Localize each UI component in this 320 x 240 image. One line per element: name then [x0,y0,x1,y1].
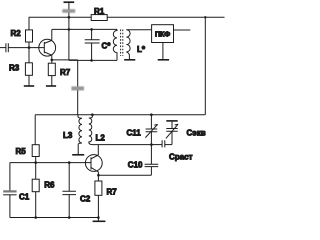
wire tank left vertical [68,29,70,60]
svg-text:Сэкв: Сэкв [187,129,206,138]
node divider [34,161,37,164]
wire C1 drop [9,163,11,192]
svg-text:L*: L* [137,45,146,54]
capacitor Crast [151,144,162,146]
wire power vertical [68,2,70,29]
wire base rail Q2 [10,162,91,164]
svg-text:C2: C2 [80,195,91,204]
wire bottom rail [10,217,99,219]
wire right vertical [204,17,206,114]
node C11 top [150,113,153,116]
transistor Q2 [85,155,102,172]
wire R5 to divider [35,157,37,163]
wire emitter line to C10 [98,174,151,176]
svg-text:C1: C1 [19,193,30,202]
wire Crast up to Cekv [171,131,173,144]
gray blur bar on coupling line [71,86,84,90]
node right-rail junction [204,16,206,18]
capacitor C11 variable [150,115,152,129]
capacitor C1 [3,190,16,192]
node L2 top [91,113,94,116]
ground R7 bottom [93,220,106,222]
wire input [0,47,6,49]
wire base [8,47,44,49]
ground PKF [158,59,169,61]
wire tank bottom [69,59,117,61]
power terminal T-bar [64,1,75,3]
svg-text:L2: L2 [96,134,106,143]
capacitor C10 [150,145,152,165]
wire emitter to coupling [52,59,78,61]
svg-text:L3: L3 [63,131,73,140]
ground R7 top [46,85,56,87]
resistor R6 [35,163,37,180]
wire R5 drop [34,115,36,145]
node power drop on collector rail [68,28,71,31]
wire mid rail [35,114,205,116]
node C11 bottom junction [150,143,153,146]
node base Q1 [28,46,31,49]
wire R2 to top rail [28,17,30,30]
wire base to R3 [28,48,30,63]
resistor R5 [32,145,39,157]
inductor transformer primary [113,29,117,60]
resistor R3 [25,63,32,76]
inductor transformer secondary L* [126,30,130,60]
svg-text:C11: C11 [127,129,142,138]
wire collector rail [52,28,117,30]
node emitter Q1 [51,59,54,62]
svg-text:C10: C10 [128,161,143,170]
capacitor Cekv variable [166,129,177,132]
wire PKF to ground [162,43,164,60]
capacitor C2 [68,163,70,192]
wire R6 to rail [35,192,37,218]
gray blur bar on power line [62,9,75,13]
resistor R7 top [51,60,53,63]
node R6 rail [34,216,37,219]
svg-text:R5: R5 [16,147,27,156]
resistor R7 bottom [97,175,99,181]
node Q2 emitter [97,174,100,177]
ground secondary [124,59,135,61]
resistor R1 [91,15,107,21]
wire PKF output stub [174,29,191,31]
node rail end [97,216,100,219]
resistor R2 [26,30,33,42]
wire R3 to ground [28,75,30,86]
svg-text:ПКФ: ПКФ [155,32,170,39]
svg-text:R6: R6 [44,181,55,190]
ground R3 [24,85,34,87]
block PKF [152,25,174,43]
terminal Cekv T-bar [166,120,177,122]
node power-rail junction [68,16,71,19]
capacitor C* [91,29,93,39]
svg-text:R1: R1 [94,7,105,16]
svg-text:Сраст: Сраст [169,153,193,162]
ground L3 [72,154,84,156]
svg-text:R2: R2 [11,29,22,38]
inductor L2 [89,115,152,145]
wire R7 to ground [51,76,53,86]
svg-text:C*: C* [102,42,112,51]
wire Q2 collector [97,145,99,155]
wire top rail [29,16,225,18]
capacitor input coupling [6,43,8,52]
wire coupling vertical [77,60,79,115]
svg-text:R7: R7 [60,68,71,77]
transistor Q1 [39,39,56,56]
wire Q1 collector up [51,29,53,40]
svg-text:R7: R7 [107,188,118,197]
transformer core dashed [120,30,122,57]
wire R2 to base [28,42,30,48]
wire R7 to ground [97,195,99,221]
svg-text:R3: R3 [9,63,20,72]
inductor L3 [78,115,82,155]
